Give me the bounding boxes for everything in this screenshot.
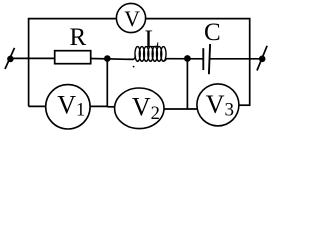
terminal right dot [259,56,266,63]
wire V1 to node A [90,105,108,107]
capacitor C left plate [202,48,204,70]
voltmeter V2 ellipse [115,88,164,129]
inductor L coil [133,47,167,68]
wire capacitor to right terminal [210,58,263,60]
junction node B dot [184,55,191,62]
voltmeter V circle [116,3,145,32]
wire V3 to right rail [239,104,251,106]
wire left rail [28,19,30,107]
wire left terminal to resistor [10,57,55,59]
wire inductor to capacitor [166,58,203,60]
wire node A to V2 [107,106,115,108]
wire right rail [249,19,251,106]
wire top right segment [146,18,251,20]
svg-text:L: L [145,26,160,53]
terminal left dot [7,56,14,63]
wire node A down [106,59,108,107]
wire rail to V1 [29,105,47,107]
svg-text:R: R [70,24,87,51]
capacitor C right plate [209,44,210,74]
wire top left segment [28,18,117,20]
svg-text:V: V [124,7,140,31]
junction node A dot [104,55,111,62]
wire node B down [186,59,188,110]
voltmeter V3 circle [197,84,239,126]
terminal right slash [257,46,267,71]
resistor R [55,51,91,64]
voltmeter V1 circle [46,85,90,129]
terminal left slash [5,48,15,69]
svg-text:C: C [204,19,221,46]
wire V2 to V3 [164,108,199,110]
wire resistor to inductor [91,58,134,61]
